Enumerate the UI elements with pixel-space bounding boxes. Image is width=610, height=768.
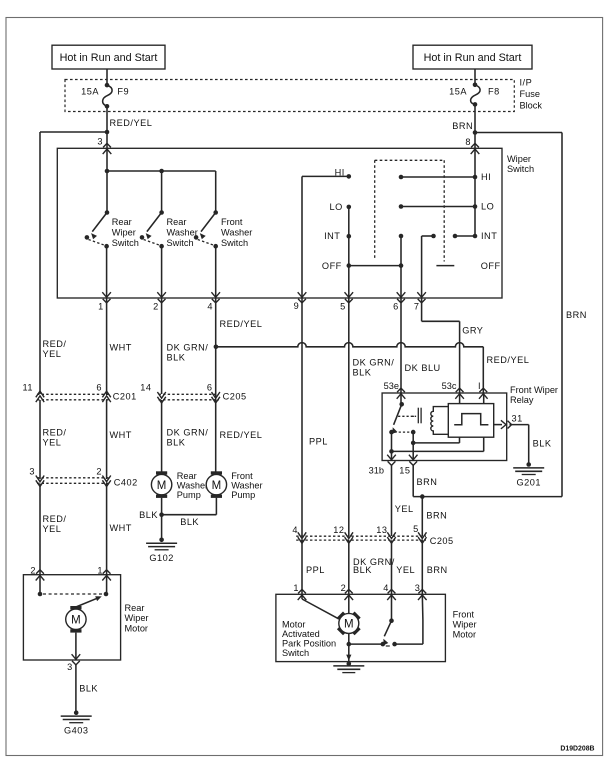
wire YEL relay 31b to C205: [391, 465, 393, 537]
svg-text:I: I: [478, 381, 481, 391]
svg-text:53c: 53c: [442, 381, 457, 391]
svg-text:9: 9: [294, 301, 299, 311]
rear wiper switch: [105, 210, 110, 215]
svg-text:13: 13: [376, 525, 387, 535]
front washer switch: [213, 210, 218, 215]
svg-text:31: 31: [512, 414, 523, 424]
svg-text:Wiper: Wiper: [125, 613, 149, 623]
front washer pump motor: [211, 471, 222, 474]
front wiper motor M: [353, 612, 361, 620]
svg-text:Switch: Switch: [167, 238, 194, 248]
svg-text:31b: 31b: [369, 465, 384, 475]
svg-text:F8: F8: [488, 87, 500, 97]
contact INT right fixed to pin 7: [431, 234, 436, 239]
svg-text:BLK: BLK: [353, 368, 372, 378]
wire BRN fuse F8 to node and pin 8: [474, 104, 476, 148]
wire RED/YEL pin4 down: [215, 298, 217, 400]
wire relay 15 contact down: [412, 432, 414, 460]
svg-text:4: 4: [292, 525, 297, 535]
svg-text:3: 3: [29, 467, 34, 477]
svg-text:C205: C205: [430, 536, 454, 546]
svg-text:4: 4: [207, 302, 212, 312]
wire pin1 to contact: [106, 575, 108, 594]
svg-text:WHT: WHT: [110, 523, 132, 533]
wire feed inside switch to rear switches: [106, 148, 108, 171]
svg-text:RED/: RED/: [43, 514, 67, 524]
relay switch blade: [394, 404, 402, 425]
node at BRN branch: [473, 130, 478, 135]
mechanical link dashed lines: [375, 159, 445, 161]
contact HI left section with wire to pin 9: [347, 174, 352, 179]
wire motor common to ground: [348, 644, 350, 662]
wire BRN C205 to motor pin 3: [421, 540, 423, 594]
svg-text:2: 2: [30, 566, 35, 576]
ground G102: [159, 538, 164, 543]
relay pulse unit box: [448, 404, 493, 438]
pin 31 of relay: [501, 420, 506, 429]
wire BLK rear pump to ground node: [161, 498, 163, 515]
svg-text:BLK: BLK: [79, 683, 98, 693]
svg-text:C402: C402: [114, 477, 138, 487]
svg-text:BRN: BRN: [452, 121, 473, 131]
svg-text:Front Wiper: Front Wiper: [510, 385, 558, 395]
svg-text:DK BLU: DK BLU: [405, 363, 441, 373]
wire DK BLU pin 6 to relay 53e: [400, 298, 402, 393]
svg-text:Park Position: Park Position: [282, 638, 336, 648]
svg-text:M: M: [71, 615, 81, 627]
node RED/YEL branch to relay: [214, 345, 219, 350]
contact INT right moving pair: [453, 234, 458, 239]
svg-text:Block: Block: [520, 101, 543, 111]
svg-text:I/P: I/P: [520, 78, 533, 88]
relay common contact and dashed link: [389, 430, 394, 435]
wire DK GRN/BLK to rear washer pump: [161, 400, 163, 474]
wire 53c into pulse unit: [459, 393, 461, 404]
svg-text:53e: 53e: [384, 381, 399, 391]
relay coil: [431, 407, 449, 435]
svg-text:YEL: YEL: [43, 349, 62, 359]
svg-text:Switch: Switch: [282, 648, 309, 658]
wire BLK front pump to junction: [215, 498, 217, 515]
svg-text:M: M: [212, 480, 222, 492]
svg-text:Relay: Relay: [510, 395, 534, 405]
svg-text:2: 2: [153, 302, 158, 312]
svg-text:RED/: RED/: [43, 339, 67, 349]
wire rear wiper switch to pin 1: [106, 246, 108, 298]
svg-text:Switch: Switch: [507, 164, 534, 174]
fuse F9 15A: [105, 83, 110, 88]
svg-text:Switch: Switch: [221, 238, 248, 248]
svg-text:BLK: BLK: [353, 565, 372, 575]
svg-text:1: 1: [97, 566, 102, 576]
wire pin 1 diagonal to motor: [301, 594, 303, 599]
svg-text:BLK: BLK: [533, 439, 552, 449]
svg-text:7: 7: [414, 302, 419, 312]
wire front washer switch column: [215, 171, 217, 213]
wire INT-left contact down to OFF and pin 6: [399, 234, 404, 239]
svg-text:BRN: BRN: [417, 477, 438, 487]
svg-text:1: 1: [98, 302, 103, 312]
wire DK GRN/BLK pin2 to C205: [161, 298, 163, 394]
svg-text:D19D208B: D19D208B: [560, 745, 594, 752]
svg-text:Motor: Motor: [453, 629, 477, 639]
wiper switch box: [57, 148, 502, 298]
svg-text:F9: F9: [117, 87, 129, 97]
wire relay I pin into pulse unit: [483, 393, 485, 404]
wire branch right from BRN node: [475, 132, 562, 134]
svg-text:6: 6: [393, 302, 398, 312]
svg-text:2: 2: [341, 583, 346, 593]
ground below front wiper motor: [347, 662, 352, 667]
svg-text:RED/YEL: RED/YEL: [110, 118, 153, 128]
svg-text:C205: C205: [223, 392, 247, 402]
contact HI right with wire: [399, 175, 404, 180]
svg-text:Activated: Activated: [282, 629, 320, 639]
wire pulse unit output to pin 31: [494, 424, 502, 426]
wire rear wiper switch column: [106, 171, 108, 213]
wire from left power box to fuse F9: [106, 69, 108, 85]
fuse F8 15A: [473, 83, 478, 88]
wire right contact to pin 3: [395, 643, 423, 645]
svg-text:Rear: Rear: [167, 217, 187, 227]
wire rear washer switch column: [161, 171, 163, 213]
svg-text:INT: INT: [481, 231, 497, 241]
wire DK GRN/BLK pin 5 to C205: [348, 298, 350, 536]
svg-text:Rear: Rear: [125, 603, 145, 613]
rear motor park switch blade: [76, 597, 100, 607]
rear washer switch: [159, 210, 164, 215]
dashed link rear motor park switch: [43, 593, 102, 595]
svg-text:LO: LO: [481, 202, 494, 212]
wire BLK pin 31 to ground G201: [510, 424, 529, 426]
svg-text:5: 5: [340, 302, 345, 312]
svg-text:BLK: BLK: [180, 517, 199, 527]
wire 15 contact to pulse unit: [413, 442, 459, 444]
relay switch contact 53e: [400, 393, 402, 404]
OFF open contact bar: [436, 265, 454, 267]
svg-text:2: 2: [96, 467, 101, 477]
svg-text:DK GRN/: DK GRN/: [167, 343, 209, 353]
wire rear washer switch to pin 2: [161, 246, 163, 298]
rear wiper motor M: [70, 606, 81, 609]
OFF row wire: [347, 263, 352, 268]
contact LO right with wire: [399, 204, 404, 209]
svg-text:8: 8: [465, 137, 470, 147]
pulse waveform symbol: [454, 414, 488, 425]
svg-text:Rear: Rear: [177, 471, 197, 481]
svg-text:HI: HI: [335, 168, 345, 178]
svg-text:Rear: Rear: [112, 217, 132, 227]
svg-text:LO: LO: [330, 202, 343, 212]
svg-text:OFF: OFF: [322, 261, 342, 271]
wire pulse unit to 31b node: [483, 437, 485, 451]
svg-text:DK GRN/: DK GRN/: [353, 358, 395, 368]
node BRN junction: [420, 494, 425, 499]
svg-text:6: 6: [207, 382, 212, 392]
wire pin 2 to motor: [348, 594, 350, 613]
svg-text:M: M: [344, 619, 354, 631]
park switch blade: [384, 621, 391, 637]
wire WHT C402 to rear wiper motor pin 1: [106, 484, 108, 575]
wire WHT pin1 to C201: [106, 298, 108, 394]
svg-text:Front: Front: [231, 471, 253, 481]
contact LO left section: [347, 205, 352, 210]
park switch dash: [386, 645, 390, 647]
front wiper relay box: [382, 393, 507, 461]
svg-text:Washer: Washer: [231, 481, 262, 491]
park switch common contact: [381, 642, 386, 647]
wire from right power box to fuse F8: [474, 69, 476, 85]
svg-text:11: 11: [22, 382, 33, 392]
contact INT left section: [347, 234, 352, 239]
svg-text:G102: G102: [149, 553, 173, 563]
svg-text:OFF: OFF: [481, 261, 501, 271]
svg-text:15: 15: [399, 465, 410, 475]
svg-text:M: M: [157, 480, 167, 492]
svg-text:Washer: Washer: [167, 228, 198, 238]
svg-text:INT: INT: [324, 231, 340, 241]
wire RED/YEL horizontal to relay pin I with hops: [216, 343, 483, 347]
svg-text:6: 6: [96, 382, 101, 392]
rear washer pump motor: [156, 471, 167, 474]
svg-text:Wiper: Wiper: [507, 154, 531, 164]
rear wiper motor box: [23, 575, 120, 660]
svg-text:YEL: YEL: [395, 504, 414, 514]
svg-text:YEL: YEL: [43, 524, 62, 534]
wire RED/YEL fuse F9 to node and pin 3: [106, 106, 108, 148]
svg-text:15A: 15A: [81, 87, 99, 97]
svg-text:C201: C201: [113, 392, 137, 402]
svg-text:G403: G403: [64, 726, 88, 736]
svg-text:Hot in Run and Start: Hot in Run and Start: [60, 52, 158, 64]
wire pin2 to contact: [39, 575, 41, 594]
I/P fuse block dashed box: [65, 80, 514, 112]
svg-text:12: 12: [333, 525, 344, 535]
svg-text:Fuse: Fuse: [520, 89, 540, 99]
relay capacitor symbol: [412, 415, 414, 417]
svg-text:RED/YEL: RED/YEL: [220, 319, 263, 329]
svg-text:PPL: PPL: [306, 565, 325, 575]
svg-text:3: 3: [415, 583, 420, 593]
node at RED/YEL branch: [105, 130, 110, 135]
wire BRN node to C205: [421, 497, 423, 536]
svg-text:Hot in Run and Start: Hot in Run and Start: [424, 52, 522, 64]
svg-text:Wiper: Wiper: [112, 228, 136, 238]
wire pin 4 to park switch contact: [391, 594, 393, 620]
svg-text:3: 3: [67, 662, 72, 672]
wire BLK to ground G403: [75, 665, 77, 713]
svg-text:RED/YEL: RED/YEL: [487, 355, 530, 365]
wire RED/YEL to front washer pump: [215, 400, 217, 474]
svg-text:G201: G201: [516, 478, 540, 488]
ground G201: [526, 462, 531, 467]
svg-text:RED/YEL: RED/YEL: [220, 430, 263, 440]
svg-text:4: 4: [383, 583, 388, 593]
svg-text:14: 14: [140, 382, 151, 392]
svg-text:WHT: WHT: [110, 343, 132, 353]
front wiper motor box: [276, 594, 446, 661]
wire branch left from RED/YEL node: [40, 131, 107, 133]
svg-text:Wiper: Wiper: [453, 619, 477, 629]
wire PPL C205 to motor pin 1: [301, 540, 303, 594]
wire YEL C205 to motor pin 4: [391, 540, 393, 594]
wire PPL pin 9 to C205: [301, 298, 303, 536]
svg-text:BLK: BLK: [167, 353, 186, 363]
svg-text:BRN: BRN: [426, 511, 447, 521]
wire RED/YEL C402 to rear wiper motor pin 2: [39, 484, 41, 575]
svg-text:BRN: BRN: [566, 310, 587, 320]
svg-text:Front: Front: [453, 609, 475, 619]
svg-text:Switch: Switch: [112, 238, 139, 248]
svg-text:WHT: WHT: [110, 430, 132, 440]
svg-text:1: 1: [293, 583, 298, 593]
wire RED/YEL C201 to C402: [39, 400, 41, 479]
svg-text:3: 3: [97, 137, 102, 147]
wire BRN horizontal join: [413, 496, 562, 498]
pin 8 feed inside switch: [474, 148, 476, 236]
power box right: Hot in Run and Start: [413, 45, 532, 69]
wire front washer switch to pin 4: [215, 246, 217, 298]
svg-text:BLK: BLK: [167, 438, 186, 448]
svg-text:DK GRN/: DK GRN/: [167, 428, 209, 438]
svg-text:Front: Front: [221, 217, 243, 227]
svg-text:5: 5: [413, 524, 418, 534]
power box left: Hot in Run and Start: [52, 45, 165, 69]
svg-text:Washer: Washer: [221, 228, 252, 238]
svg-text:RED/: RED/: [43, 428, 67, 438]
wire DK GRN/BLK C205 to motor pin 2: [348, 540, 350, 594]
wire WHT C201 to C402: [106, 400, 108, 479]
wire relay 31b contact down: [391, 432, 393, 460]
node BLK junction: [159, 512, 164, 517]
wire to ground G102: [161, 515, 163, 540]
svg-text:Pump: Pump: [231, 490, 255, 500]
svg-text:Washer: Washer: [177, 481, 208, 491]
wire GRY pin 7 to relay 53c: [421, 298, 423, 321]
svg-text:15A: 15A: [449, 87, 467, 97]
svg-text:PPL: PPL: [309, 437, 328, 447]
wire motor bottom to common contact: [348, 634, 350, 644]
wire BRN relay 15 to node: [412, 465, 414, 497]
ground G403: [74, 710, 79, 715]
svg-text:BLK: BLK: [139, 510, 158, 520]
wire left branch vertical RED/YEL down to C201: [39, 132, 41, 394]
svg-text:HI: HI: [481, 172, 491, 182]
svg-text:YEL: YEL: [43, 438, 62, 448]
wire BRN right side vertical: [561, 133, 563, 497]
svg-text:Motor: Motor: [125, 623, 149, 633]
svg-text:GRY: GRY: [462, 325, 483, 335]
park switch right contact: [392, 642, 397, 647]
svg-text:YEL: YEL: [396, 565, 415, 575]
wire motor to pin 3: [75, 633, 77, 660]
svg-text:Motor: Motor: [282, 619, 306, 629]
svg-text:BRN: BRN: [427, 565, 448, 575]
svg-text:Pump: Pump: [177, 490, 201, 500]
